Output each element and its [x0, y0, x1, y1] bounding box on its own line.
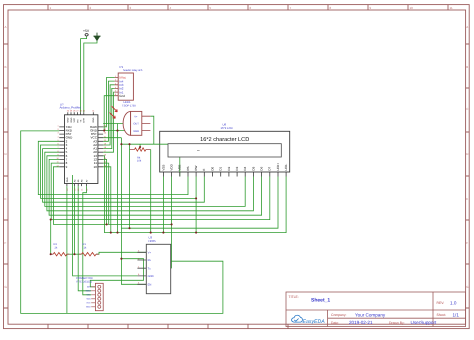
svg-text:RTC DS3231: RTC DS3231: [77, 280, 93, 283]
svg-text:24: 24: [104, 125, 106, 128]
wire TSOP OUT to left: [103, 123, 123, 125]
svg-text:E: E: [466, 197, 468, 201]
svg-text:32K: 32K: [87, 286, 91, 289]
wire arduino A7 to RTC SCL: [83, 186, 91, 295]
LCD display window: [168, 144, 281, 157]
svg-text:VCC: VCC: [73, 117, 76, 122]
svg-text:D2: D2: [227, 166, 231, 170]
svg-text:21: 21: [104, 135, 106, 138]
svg-text:VDD: VDD: [170, 163, 174, 170]
wire relay In3 to arduino A2: [103, 85, 115, 145]
svg-text:19: 19: [74, 189, 77, 191]
svg-text:10: 10: [56, 157, 58, 160]
svg-text:1: 1: [115, 75, 116, 78]
ground symbol: [93, 33, 100, 41]
LCD module U? 16*2 LCD: [160, 123, 290, 172]
svg-text:4: 4: [58, 135, 59, 138]
wire arduino pin10 to rail3: [103, 167, 111, 233]
svg-text:VCC: VCC: [86, 302, 91, 305]
svg-text:17: 17: [104, 150, 106, 153]
svg-text:VSS: VSS: [161, 165, 165, 171]
svg-text:18: 18: [104, 146, 106, 149]
svg-text:+5V: +5V: [83, 29, 90, 33]
svg-text:TSOP-1738: TSOP-1738: [122, 105, 136, 108]
svg-text:23: 23: [66, 189, 69, 191]
arduino bottom pin numbers: [66, 189, 89, 191]
svg-text:V+: V+: [148, 251, 152, 254]
svg-text:Gnd: Gnd: [119, 94, 125, 98]
arduino top pin names vertical: [67, 117, 96, 122]
arduino pin stubs: [59, 112, 103, 186]
svg-text:1/1: 1/1: [453, 312, 460, 317]
title block values: [311, 298, 459, 325]
wire TSOP OUT down to gnd rail: [117, 124, 119, 233]
wire through arduino to HC05 GND: [73, 175, 138, 276]
arduino right pin numbers: [104, 125, 106, 168]
arduino top pin numbers: [67, 110, 95, 113]
svg-text:16*2 character LCD: 16*2 character LCD: [200, 136, 249, 143]
svg-text:12: 12: [56, 164, 58, 167]
svg-text:D0: D0: [210, 166, 214, 170]
wire relay Gnd down to gnd line: [104, 96, 114, 131]
svg-text:D1: D1: [219, 166, 223, 170]
svg-text:Sheet:: Sheet:: [437, 313, 447, 317]
wire LCD RW down to gnd rail: [195, 177, 197, 233]
svg-text:RX: RX: [76, 119, 79, 123]
svg-text:31: 31: [92, 110, 94, 113]
svg-text:9: 9: [58, 153, 59, 156]
svg-text:B: B: [5, 65, 7, 69]
wire relay In4 to arduino A3: [103, 81, 115, 141]
svg-text:26: 26: [80, 110, 82, 113]
wire arduino pin4 to LCD E: [43, 149, 205, 203]
svg-text:2: 2: [58, 128, 59, 131]
svg-text:VEE: VEE: [178, 165, 182, 171]
svg-text:20: 20: [104, 139, 106, 142]
wire arduino pin2 to LCD RS: [38, 141, 188, 194]
wire TSOP V+ branch to VEE line: [150, 116, 153, 144]
svg-text:GND: GND: [66, 177, 69, 182]
svg-text:E: E: [5, 197, 7, 201]
svg-text:30: 30: [67, 110, 69, 113]
svg-text:11: 11: [450, 6, 453, 10]
svg-text:3: 3: [58, 132, 59, 135]
arduino left pin numbers: [56, 125, 58, 168]
svg-text:D6: D6: [260, 166, 264, 170]
wire arduino GND row to TSOP GND: [103, 130, 125, 132]
svg-text:A: A: [5, 25, 7, 29]
svg-text:Drawn By:: Drawn By:: [389, 321, 405, 325]
wire arduino A4 down to resistor junction: [74, 186, 76, 254]
svg-text:HC05: HC05: [149, 239, 157, 243]
svg-text:2: 2: [115, 79, 116, 82]
LCD window dash: [197, 149, 200, 151]
svg-text:TITLE:: TITLE:: [289, 295, 299, 299]
title block text labels: [289, 295, 447, 325]
svg-text:F: F: [5, 241, 7, 245]
wire arduino bottom GND down to bottom line: [66, 186, 68, 313]
svg-text:2019-02-21: 2019-02-21: [349, 320, 373, 325]
svg-text:5: 5: [115, 90, 116, 93]
arduino bottom pin names vertical: [66, 177, 89, 182]
svg-text:RS: RS: [186, 166, 190, 170]
wire arduino pin11 to rail1: [103, 163, 109, 224]
arduino right pin names: [90, 125, 98, 169]
svg-text:6: 6: [115, 93, 116, 96]
microcontroller U? Arduino_ProMini: [56, 102, 105, 191]
wire relay In2 to arduino A1: [103, 88, 115, 148]
LCD pin stubs: [163, 172, 286, 177]
svg-text:5: 5: [58, 139, 59, 142]
title block frame: [286, 292, 466, 327]
wire relay 5Vcc to arduino RAW: [103, 78, 115, 127]
IR arrows: [110, 106, 118, 118]
svg-text:16: 16: [104, 153, 106, 156]
EasyEDA logo: [292, 315, 326, 325]
svg-text:DTR: DTR: [83, 118, 86, 123]
svg-text:10k: 10k: [137, 160, 142, 163]
svg-text:3: 3: [115, 82, 116, 85]
svg-text:EN: EN: [148, 283, 152, 286]
wire R3 left up to D7 bus: [50, 220, 52, 255]
connector RTC DS3231: [76, 277, 103, 310]
border tick marks bottom: [48, 324, 288, 328]
svg-text:GND: GND: [86, 306, 91, 309]
svg-text:EasyEDA: EasyEDA: [303, 319, 326, 325]
svg-text:25: 25: [83, 110, 85, 113]
wire arduino pin8 to LCD D7: [51, 163, 270, 220]
svg-text:29: 29: [70, 110, 72, 113]
svg-text:27: 27: [76, 110, 78, 113]
svg-text:22: 22: [104, 132, 106, 135]
svg-text:15: 15: [104, 157, 106, 160]
wire +5V to arduino top pin: [81, 36, 87, 112]
svg-text:GND: GND: [133, 130, 139, 133]
svg-text:header relay 4ch: header relay 4ch: [123, 69, 143, 72]
svg-text:D3: D3: [235, 166, 239, 170]
svg-text:19: 19: [104, 143, 106, 146]
wire LCD VSS down to gnd rail: [162, 177, 164, 233]
svg-text:A: A: [466, 25, 468, 29]
wire branch to RTC pin1: [90, 259, 143, 287]
wire arduino pin9 to rail1: [53, 167, 171, 225]
svg-text:1.0: 1.0: [450, 300, 457, 305]
svg-text:11: 11: [57, 161, 59, 164]
svg-text:20: 20: [77, 189, 80, 191]
svg-text:D4: D4: [243, 166, 247, 170]
svg-text:7: 7: [58, 146, 59, 149]
wire arduino A5 to RTC SQW: [78, 186, 91, 291]
svg-text:GND: GND: [92, 117, 95, 122]
svg-text:4: 4: [115, 86, 116, 89]
svg-text:SQW: SQW: [86, 290, 91, 293]
resistor R1 1k: [79, 243, 99, 256]
wire arduino pin12 to rail1: [103, 159, 107, 224]
svg-text:Arduino_ProMini: Arduino_ProMini: [60, 106, 82, 110]
wire arduino pin7 to LCD D6: [49, 159, 262, 215]
wire arduino pin3 to LCD RW: [41, 145, 197, 198]
IR receiver LED1 TSOP-1738: [110, 100, 151, 135]
svg-text:Date:: Date:: [331, 321, 339, 325]
wire vcc rail vertical to HC05 EN: [121, 138, 146, 285]
wire arduino pin5 to LCD D4: [45, 152, 245, 206]
wire ground to arduino top pin: [84, 41, 97, 113]
svg-text:D5: D5: [251, 166, 255, 170]
power flag +5V: [83, 29, 90, 36]
svg-text:8: 8: [58, 150, 59, 153]
wire LCD VEE contrast over box: [156, 144, 180, 176]
svg-text:GND: GND: [70, 117, 73, 122]
svg-text:LED-: LED-: [284, 164, 288, 171]
svg-text:GND: GND: [67, 117, 70, 122]
wire VEE contrast line: [121, 143, 156, 145]
svg-text:13: 13: [104, 164, 106, 167]
svg-text:21: 21: [81, 189, 84, 191]
border tick marks top: [48, 5, 448, 10]
module U3 HC05: [137, 236, 170, 294]
resistor R3 2k: [51, 243, 70, 256]
svg-text:28: 28: [73, 110, 75, 113]
svg-text:OUT: OUT: [133, 123, 139, 126]
svg-text:SDA: SDA: [86, 298, 91, 301]
svg-text:B: B: [466, 65, 468, 69]
svg-text:22: 22: [86, 189, 89, 191]
svg-text:1: 1: [58, 125, 59, 128]
wire arduino RXD long ground loop: [21, 131, 223, 314]
border tick marks right: [466, 44, 470, 308]
pot lead wires: [130, 144, 151, 232]
wire arduino pin13 to gnd rail3 and LCD LED-: [103, 156, 286, 233]
svg-text:D7: D7: [268, 166, 272, 170]
svg-text:Your Company: Your Company: [355, 312, 386, 317]
svg-text:REV:: REV:: [437, 301, 445, 305]
svg-text:RW: RW: [194, 165, 198, 170]
svg-text:10: 10: [410, 6, 414, 10]
wire R3 right to R1 left junction: [67, 253, 82, 255]
svg-text:Sheet_1: Sheet_1: [311, 298, 330, 304]
connector P1 header relay 4ch: [115, 65, 143, 100]
LCD pin names vertical: [161, 163, 288, 171]
svg-text:UserSupport: UserSupport: [411, 320, 438, 325]
svg-text:LED+: LED+: [276, 163, 280, 171]
border tick marks left: [4, 44, 9, 308]
potentiometer R4 10k contrast: [130, 147, 151, 163]
wire arduino pin6 to LCD D5: [47, 156, 254, 211]
svg-text:6: 6: [58, 143, 59, 146]
svg-text:F: F: [466, 241, 468, 245]
svg-text:E: E: [202, 169, 206, 171]
arduino left pin names: [66, 125, 74, 169]
wire R1 right to HC05 V+: [96, 252, 146, 254]
svg-text:GND: GND: [148, 275, 154, 278]
svg-text:16*2 LCD: 16*2 LCD: [221, 126, 233, 130]
svg-text:14: 14: [104, 161, 106, 164]
wire arduino VCC to rail vertical: [103, 137, 121, 139]
svg-text:V+: V+: [134, 116, 138, 119]
wire LCD VDD down to HC05 Tx: [171, 177, 173, 269]
wire relay In1 to arduino A0: [103, 92, 115, 152]
svg-text:10: 10: [94, 165, 98, 169]
junction dots: [50, 130, 198, 260]
svg-text:Company:: Company:: [331, 313, 347, 317]
wire rail2 to LCD LED+: [121, 177, 278, 229]
